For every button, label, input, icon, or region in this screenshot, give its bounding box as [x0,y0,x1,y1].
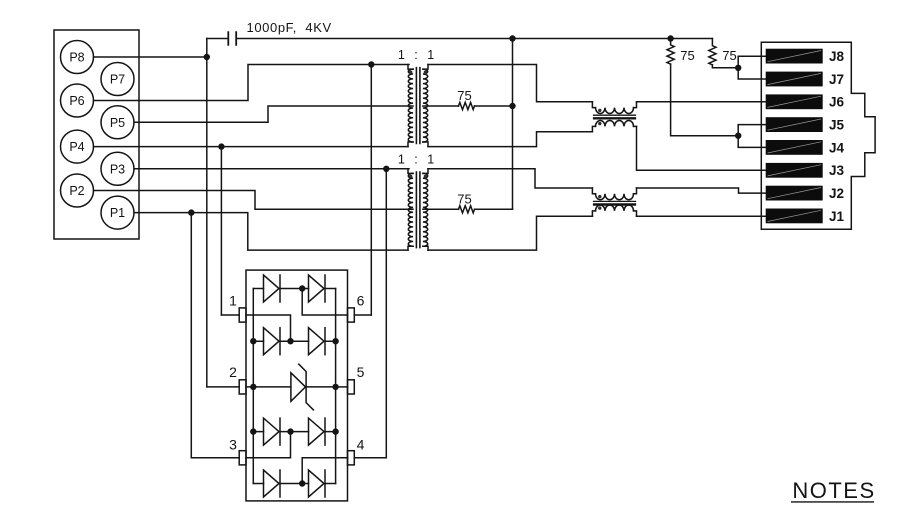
svg-text:J4: J4 [829,140,845,155]
choke L2 (common-mode, bottom) [592,188,636,216]
svg-text:J1: J1 [829,209,845,224]
node D junction dot on T2 top lead [383,166,389,172]
wire P6 to T1 top lead [94,65,410,101]
wire T1 right tap to resistor [423,105,459,107]
wire P1 to T2 bottom lead [134,213,408,251]
wire pin1 internal to row2 center [246,315,291,341]
wire R3 bottom to node J (J5/J4 tie) [671,64,739,136]
svg-text:J8: J8 [829,49,845,64]
node row1 center dot [299,285,305,291]
connector J (jack shell with latch tab) [761,42,875,229]
wire pin2 internal to left rail [246,386,253,388]
svg-text:P5: P5 [110,116,125,130]
label NOTES [791,478,876,503]
node row4 right rail dot [332,428,338,434]
wire vertical net A (P8/cap/pin2 riser) [206,39,208,387]
wire T1 top right lead to choke L1 [428,65,592,102]
node G junction dot on T1 tap line [509,103,515,109]
svg-text:75: 75 [457,191,471,206]
node K junction dot [735,65,741,71]
wire riser net D (T2 top to pin4) [385,169,387,458]
wire choke L1 top to J6 [637,101,767,103]
wire T2 right tap to resistor [423,208,459,210]
svg-text:75: 75 [680,48,694,63]
pin P7 [101,63,134,96]
pin 6 terminal box [348,292,365,322]
diode D3 [264,328,281,355]
svg-text:P7: P7 [110,73,125,87]
wire riser net E (P1 to pin3) [190,213,192,458]
svg-text:5: 5 [357,364,365,380]
wire row3 segments [253,386,335,388]
wire pin4 external stub [354,457,386,459]
wire riser net C (P4 to pin1) [220,147,222,315]
node row4 center dot [287,428,293,434]
diode array U1 body [246,270,348,501]
wire cap line right segment [237,38,712,40]
wire J5/J4 tie [738,125,766,148]
connector P (header shell) [54,30,139,239]
node row2 right rail dot [332,338,338,344]
transformer T2 (1:1) [408,169,428,250]
wire pin4 internal to row5 center [302,458,347,484]
svg-text:P6: P6 [69,94,84,108]
svg-text:4: 4 [357,437,365,453]
svg-text:P4: P4 [69,140,84,154]
pin 3 terminal box [229,437,246,465]
svg-text:2: 2 [229,364,237,380]
resistor R2 75 (T2 termination) [457,191,474,213]
pin 4 terminal box [348,437,365,465]
resistor R3 75 (pull, left) [667,39,695,65]
node row2 left rail dot [250,338,256,344]
node row3 right rail dot [332,384,338,390]
node row3 left rail dot [250,384,256,390]
svg-text:P8: P8 [69,51,84,65]
wire row1 segments [253,288,335,290]
wire row2 segments [253,340,335,342]
wire R2 to common vertical [475,208,513,210]
wire P8 to node A [94,56,207,58]
wire pin3 internal to row4 center [246,432,291,458]
svg-text:P2: P2 [69,184,84,198]
svg-text:J6: J6 [829,95,845,110]
node F junction dot (common line / vertical x=512.5) [509,35,515,41]
node row4 left rail dot [250,428,256,434]
diode D8 [309,470,326,497]
node J junction dot [735,133,741,139]
pin J4 [766,140,845,155]
node row2 center dot [287,338,293,344]
node row5 center dot [299,480,305,486]
wire T1 bottom right lead to choke L1 [428,132,592,147]
wire riser net B (T1 top to pin6) [370,65,372,316]
svg-text:1: 1 [229,292,237,308]
svg-text:1 : 1: 1 : 1 [398,48,437,62]
pin J2 [766,186,844,201]
wire cap line left segment [207,38,228,40]
node C junction dot on P4 wire [218,143,224,149]
pin P1 [101,196,134,229]
diode D7 [264,470,281,497]
node E junction dot on P1 wire [188,209,194,215]
wire J8/J7 tie [738,56,766,79]
svg-text:1 : 1: 1 : 1 [398,152,437,166]
pin 2 terminal box [229,364,246,394]
svg-text:75: 75 [722,48,736,63]
wire pin5 internal to right rail [336,386,348,388]
pin J7 [766,72,844,87]
svg-text:6: 6 [357,292,365,308]
resistor R1 75 (T1 termination) [457,88,474,110]
pin J3 [766,163,845,178]
diode D4 [309,328,326,355]
diode D6 [309,418,326,445]
svg-text:P3: P3 [110,162,125,176]
wire pin6 internal to row1 center [302,289,347,316]
node H junction dot top of R3 [667,35,673,41]
wire pin6 external stub [354,314,371,316]
pin 5 terminal box [348,364,365,394]
svg-text:J3: J3 [829,163,845,178]
wire P3 to T2 top lead [134,168,409,170]
pin P8 [61,41,94,74]
node B junction dot on T1 top lead [368,61,374,67]
svg-text:75: 75 [457,88,471,103]
wire P5 to T1 center tap [134,106,413,122]
diode D2 [309,275,326,302]
pin J5 [766,117,845,132]
wire R4 bottom to node K (J8/J7 tie) [712,65,738,68]
wire row4 segments [253,431,335,433]
resistor R4 75 (pull, right) [709,39,737,65]
wire left rail [252,289,254,484]
transformer T1 (1:1) [408,65,428,147]
wire common vertical x=512.5 [512,39,514,210]
capacitor C1 1000pF 4KV [228,20,331,46]
wire choke L2 top to J2 (jog) [637,188,767,193]
wire P2 to T2 center tap [94,191,414,210]
wire T2 bottom right lead to choke L2 [428,216,592,250]
choke L1 (common-mode, top) [592,102,636,132]
pin P6 [61,84,94,117]
svg-text:P1: P1 [110,206,125,220]
diode D5 [264,418,281,445]
node A junction dot [204,54,210,60]
wire choke L2 bottom to J1 [637,215,767,217]
pin J8 [766,49,845,64]
wire pin1 external stub [221,314,239,316]
pin J6 [766,94,845,109]
pin P3 [101,152,134,185]
wire pin3 external stub [191,457,239,459]
wire row5 segments [253,483,335,485]
svg-text:1000pF, 4KV: 1000pF, 4KV [247,20,332,35]
svg-text:J2: J2 [829,186,844,201]
wire R1 to common vertical [475,105,513,107]
pin P5 [101,106,134,139]
wire pin2 external stub [207,386,239,388]
diode D1 [264,275,281,302]
pin P4 [61,130,94,163]
svg-text:3: 3 [229,437,237,453]
wire T2 top right lead to choke L2 [428,169,592,188]
wire right rail [335,289,337,484]
svg-text:J7: J7 [829,72,844,87]
wire P4 to T1 bottom lead [94,146,409,148]
pin 1 terminal box [229,292,246,322]
svg-text:NOTES: NOTES [792,478,875,503]
pin J1 [766,209,845,224]
wire choke L1 bottom to J3 [637,126,767,170]
zener Z1 [291,364,314,410]
svg-text:J5: J5 [829,118,845,133]
pin P2 [61,174,94,207]
